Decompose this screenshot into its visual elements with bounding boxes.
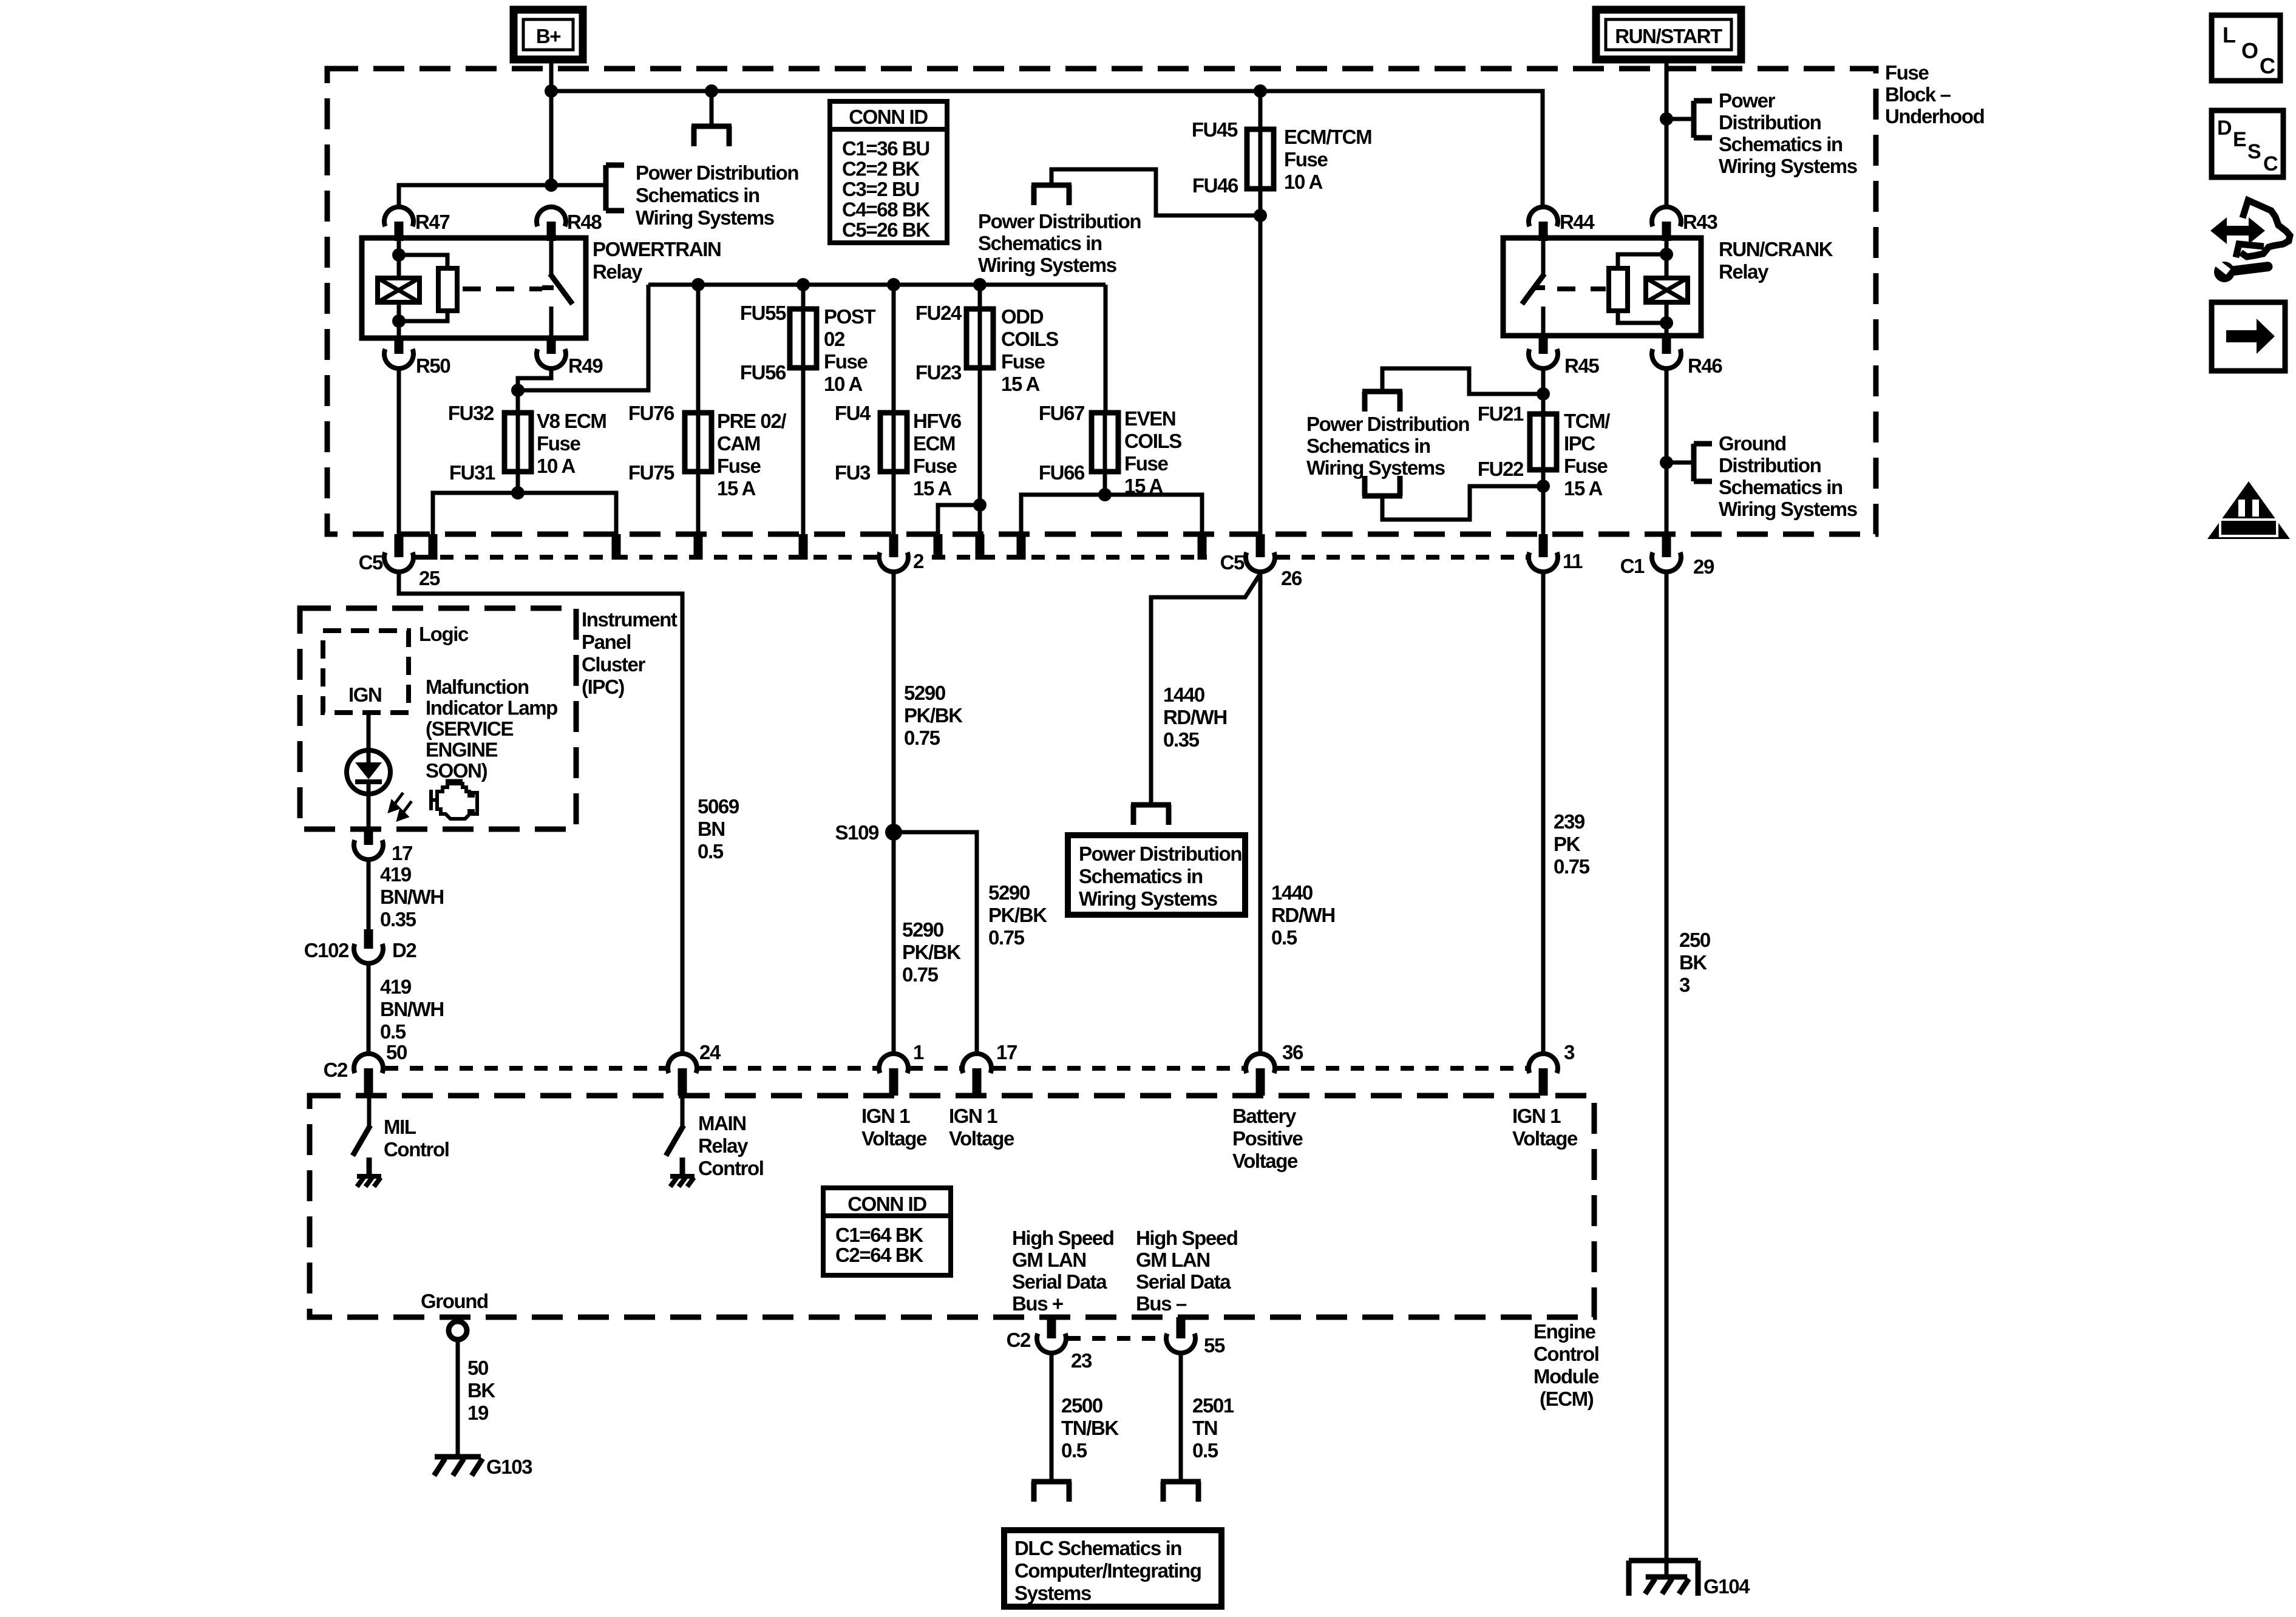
wire pin11 to ECM pin3 (239) [1541, 571, 1546, 1055]
svg-text:419: 419 [380, 975, 412, 998]
svg-text:Fuse: Fuse [1124, 452, 1168, 475]
svg-text:High Speed: High Speed [1136, 1227, 1238, 1249]
node V8 out junction [511, 486, 525, 500]
svg-text:2500: 2500 [1061, 1394, 1102, 1417]
svg-text:26: 26 [1281, 567, 1302, 589]
svg-text:0.75: 0.75 [1554, 855, 1590, 878]
wire EVEN fuse feed [1104, 285, 1108, 414]
node junction R47 branch [545, 178, 558, 192]
svg-text:FU56: FU56 [740, 361, 786, 384]
node bus POST02 drop [796, 278, 810, 291]
wire 419 lower [367, 963, 371, 1055]
ground G103 [435, 1454, 481, 1460]
wire EVEN out split [1021, 495, 1202, 558]
wire R45 down to FU21 [1541, 368, 1546, 415]
svg-text:Serial Data: Serial Data [1012, 1270, 1107, 1293]
svg-text:R47: R47 [415, 211, 449, 233]
wire ECM/TCM fuse feed [1258, 91, 1263, 131]
svg-text:Computer/Integrating: Computer/Integrating [1014, 1559, 1201, 1582]
connector C102 pin D2 [364, 929, 373, 949]
wire ECM/TCM branch to fork [1051, 169, 1260, 215]
svg-text:FU21: FU21 [1478, 402, 1524, 425]
svg-text:C2: C2 [1007, 1329, 1031, 1351]
fuse FU23/FU24 ODD COILS [966, 309, 993, 368]
wire pin29 to G104 (250) [1665, 571, 1669, 1562]
node S junction under R49 [511, 384, 525, 397]
node junction bus ECM/TCM fuse drop [1254, 84, 1267, 98]
svg-text:L: L [2223, 22, 2235, 47]
fuse block - underhood dashed box [327, 69, 1876, 534]
connector C5 pin 26 [1256, 534, 1265, 557]
svg-text:CONN ID: CONN ID [849, 106, 928, 128]
svg-text:Fuse: Fuse [1564, 455, 1608, 477]
svg-text:Distribution: Distribution [1719, 111, 1821, 134]
svg-text:TN/BK: TN/BK [1061, 1417, 1119, 1439]
svg-text:C102: C102 [304, 939, 349, 961]
wire FU22 branch Z to fork [1382, 486, 1543, 520]
svg-text:S109: S109 [835, 821, 880, 844]
svg-text:R50: R50 [416, 354, 450, 377]
node junction R43 branch [1660, 112, 1673, 126]
svg-text:Schematics in: Schematics in [1719, 133, 1843, 155]
ground G104 [1629, 1558, 1698, 1564]
bus wire B+ to R44 corner [551, 91, 1543, 207]
fork continuation (1440 branch) [1149, 802, 1153, 805]
connector pin 24 [668, 1054, 697, 1073]
svg-text:Wiring Systems: Wiring Systems [1079, 887, 1217, 910]
connector pin 55 [1177, 1317, 1186, 1338]
pass-through pins fuse block bottom [429, 534, 438, 560]
relay resistor (run/crank) [1618, 254, 1666, 268]
engine icon [431, 781, 477, 819]
svg-text:Relay: Relay [593, 260, 643, 283]
relay actuator dashed link (powertrain) [463, 286, 542, 291]
connector pin 36 [1246, 1054, 1275, 1073]
svg-text:BK: BK [467, 1379, 495, 1402]
svg-text:BN/WH: BN/WH [380, 886, 444, 908]
svg-text:0.5: 0.5 [1061, 1439, 1087, 1462]
switch MAIN relay control [681, 1096, 685, 1127]
fuse FU3/FU4 HFV6 ECM [880, 413, 907, 472]
svg-text:ECM: ECM [913, 432, 955, 455]
svg-text:Wiring Systems: Wiring Systems [636, 206, 774, 229]
svg-text:C2=64 BK: C2=64 BK [835, 1244, 923, 1266]
boxed ref Power Distribution Schematics in Wiring Systems [1068, 835, 1245, 915]
svg-text:E: E [2233, 128, 2246, 151]
svg-text:Schematics in: Schematics in [1306, 435, 1430, 457]
svg-text:C: C [2263, 152, 2278, 175]
node junction bus fork drop [705, 84, 718, 98]
connector pin 1 [879, 1054, 908, 1073]
svg-text:0.5: 0.5 [698, 840, 724, 863]
svg-text:Panel: Panel [582, 631, 631, 653]
icon LOC box [2212, 15, 2280, 81]
svg-text:Schematics in: Schematics in [978, 232, 1102, 254]
fork continuation (ECM/TCM branch) [1050, 183, 1054, 185]
svg-text:Power Distribution: Power Distribution [1079, 842, 1241, 865]
svg-text:Wiring Systems: Wiring Systems [1719, 155, 1857, 177]
svg-text:50: 50 [467, 1357, 488, 1379]
svg-text:1440: 1440 [1163, 683, 1204, 706]
svg-text:5069: 5069 [698, 795, 739, 818]
connector C5 pin 25 [395, 534, 404, 557]
svg-text:1: 1 [913, 1041, 924, 1063]
svg-text:15 A: 15 A [913, 477, 951, 500]
svg-text:0.5: 0.5 [1271, 926, 1297, 949]
svg-text:Systems: Systems [1014, 1582, 1091, 1604]
svg-text:36: 36 [1282, 1041, 1303, 1063]
node coil loop top (run/crank) [1660, 248, 1673, 261]
svg-text:Fuse: Fuse [1885, 61, 1929, 84]
node junction B+/bus [545, 84, 558, 98]
svg-text:POST: POST [824, 305, 875, 328]
svg-text:Voltage: Voltage [1512, 1127, 1578, 1150]
node ECM/TCM out junction [1254, 209, 1267, 222]
svg-text:Underhood: Underhood [1885, 105, 1984, 127]
connector R49 [547, 336, 556, 354]
svg-text:FU55: FU55 [740, 302, 786, 324]
svg-text:EVEN: EVEN [1124, 407, 1175, 430]
svg-text:FU4: FU4 [835, 402, 871, 424]
svg-text:R48: R48 [567, 211, 602, 233]
node R45 junction [1537, 387, 1550, 401]
icon OBD II triangle [2207, 481, 2290, 539]
svg-text:RUN/CRANK: RUN/CRANK [1719, 238, 1833, 260]
svg-text:10 A: 10 A [537, 455, 575, 477]
wire HFV6 fuse out to pin 2 [892, 472, 896, 537]
icon DESC box [2212, 110, 2283, 177]
svg-text:TN: TN [1192, 1417, 1217, 1439]
power node RUN/START [1596, 10, 1741, 59]
svg-text:Fuse: Fuse [717, 455, 761, 477]
switch MIL control [367, 1096, 372, 1127]
svg-text:0.75: 0.75 [988, 926, 1025, 949]
fuse FU55/FU56 POST 02 [790, 309, 817, 368]
fuse FU66/FU67 EVEN COILS [1092, 413, 1118, 472]
svg-text:Voltage: Voltage [949, 1127, 1014, 1150]
relay POWERTRAIN box [362, 238, 586, 338]
svg-text:15 A: 15 A [1564, 477, 1602, 500]
connector R48 [537, 207, 566, 226]
svg-text:C2=2 BK: C2=2 BK [842, 158, 920, 180]
wire ODD fuse feed [978, 285, 982, 310]
boxed ref DLC Schematics [1004, 1530, 1221, 1607]
svg-text:419: 419 [380, 863, 412, 886]
svg-text:C1: C1 [1620, 555, 1645, 577]
connector C2 pin 50 [354, 1054, 383, 1073]
svg-text:SOON): SOON) [426, 759, 487, 782]
svg-text:IPC: IPC [1564, 432, 1595, 455]
wire LED to pin 17 [367, 794, 371, 830]
connector R45 [1539, 336, 1548, 354]
svg-text:17: 17 [996, 1041, 1017, 1063]
svg-text:FU46: FU46 [1192, 174, 1238, 197]
svg-text:24: 24 [699, 1041, 721, 1063]
relay coil K1 (powertrain) [397, 238, 401, 276]
svg-text:Cluster: Cluster [582, 653, 645, 676]
svg-text:C5: C5 [1220, 551, 1245, 574]
svg-text:15 A: 15 A [717, 477, 755, 500]
svg-text:29: 29 [1693, 555, 1714, 578]
svg-text:FU66: FU66 [1039, 461, 1085, 484]
wire V8 fuse feed [516, 390, 520, 414]
connector R47 [384, 207, 413, 226]
svg-text:C5: C5 [359, 551, 383, 574]
reference bracket Ground Distribution [1666, 461, 1694, 465]
svg-text:15 A: 15 A [1001, 373, 1039, 395]
engine control module dashed box [310, 1096, 1594, 1317]
relay RUN/CRANK box [1503, 238, 1701, 336]
svg-text:23: 23 [1071, 1349, 1092, 1372]
svg-text:55: 55 [1204, 1334, 1225, 1357]
svg-text:Relay: Relay [1719, 260, 1769, 283]
bus wire relay output [648, 283, 1106, 287]
svg-text:FU75: FU75 [628, 461, 674, 484]
svg-text:2501: 2501 [1192, 1394, 1234, 1417]
svg-text:0.75: 0.75 [902, 963, 939, 986]
ground MIL [357, 1174, 381, 1179]
svg-text:BK: BK [1679, 951, 1707, 974]
node FU22 out junction [1537, 480, 1550, 493]
svg-text:R46: R46 [1688, 354, 1722, 377]
LED arrows [390, 793, 412, 819]
svg-text:Malfunction: Malfunction [426, 676, 529, 698]
table CONN ID (fuse block) [830, 101, 947, 243]
svg-text:BN: BN [698, 818, 725, 840]
node bus ODD drop [973, 278, 987, 291]
wire B+ down to bus [549, 59, 554, 188]
wire 2500 TN/BK [1050, 1353, 1054, 1479]
relay resistor (powertrain) [399, 255, 447, 268]
svg-text:Ground: Ground [421, 1290, 488, 1312]
svg-text:(SERVICE: (SERVICE [426, 717, 513, 740]
connector pin 2 [889, 534, 898, 557]
wire RUN/START down to R43 [1665, 59, 1669, 207]
svg-text:R49: R49 [568, 354, 603, 377]
svg-text:Distribution: Distribution [1719, 454, 1821, 476]
splice S109 [885, 824, 902, 841]
wire FU22 out [1541, 470, 1546, 537]
svg-text:Ground: Ground [1719, 432, 1786, 455]
fork continuation (bus -) [1179, 1479, 1183, 1482]
fork continuation symbol off bus [710, 91, 714, 126]
connector dotted line DLC row [1067, 1336, 1165, 1341]
wire pin26 branch to ref (1440 0.35) [1151, 574, 1260, 802]
svg-text:FU22: FU22 [1478, 458, 1524, 480]
wire EVEN fuse out [1103, 472, 1107, 497]
svg-text:FU23: FU23 [915, 361, 962, 384]
connector pin 17 (IPC) [364, 829, 373, 845]
svg-text:C2: C2 [324, 1059, 348, 1081]
fuse FU31/FU32 V8 ECM [504, 413, 531, 472]
svg-text:FU32: FU32 [448, 402, 494, 424]
svg-text:MIL: MIL [384, 1116, 416, 1138]
svg-text:FU76: FU76 [628, 402, 674, 424]
wire junction to fuse bus riser [518, 285, 648, 390]
svg-text:FU45: FU45 [1192, 118, 1238, 141]
svg-text:GM LAN: GM LAN [1136, 1249, 1210, 1271]
node coil loop bottom (run/crank) [1660, 316, 1673, 330]
svg-text:11: 11 [1563, 550, 1583, 572]
wire V8 fuse out [516, 472, 520, 495]
svg-text:Positive: Positive [1232, 1127, 1303, 1150]
power node B+ [514, 10, 583, 59]
wire ground to G103 [456, 1340, 460, 1456]
svg-text:IGN 1: IGN 1 [861, 1105, 910, 1127]
svg-text:IGN: IGN [348, 683, 381, 706]
svg-text:C4=68 BK: C4=68 BK [842, 198, 930, 221]
connector dotted line C5 row [415, 555, 877, 560]
svg-text:C5=26 BK: C5=26 BK [842, 219, 930, 241]
svg-text:02: 02 [824, 328, 845, 350]
svg-text:Schematics in: Schematics in [1719, 476, 1843, 498]
svg-text:Fuse: Fuse [824, 350, 868, 373]
svg-text:Voltage: Voltage [861, 1127, 927, 1150]
wire ODD fuse out [978, 368, 982, 507]
logic dashed box [323, 631, 409, 713]
svg-text:5290: 5290 [902, 918, 943, 941]
svg-text:Relay: Relay [698, 1134, 749, 1157]
svg-text:IGN 1: IGN 1 [1512, 1105, 1561, 1127]
wire to R47 [399, 185, 551, 207]
wire V8 out split [433, 493, 616, 558]
svg-text:FU31: FU31 [449, 461, 495, 484]
svg-text:19: 19 [467, 1402, 489, 1424]
svg-text:0.5: 0.5 [380, 1020, 406, 1043]
svg-text:V8 ECM: V8 ECM [537, 410, 606, 432]
svg-text:O: O [2241, 38, 2258, 63]
fuse FU45/FU46 ECM/TCM [1247, 129, 1274, 189]
svg-text:RUN/START: RUN/START [1615, 25, 1722, 47]
node coil loop bottom [392, 314, 406, 328]
svg-text:PRE 02/: PRE 02/ [717, 410, 786, 432]
svg-text:0.35: 0.35 [380, 908, 416, 931]
svg-text:R43: R43 [1683, 211, 1717, 233]
svg-text:RD/WH: RD/WH [1163, 706, 1227, 728]
wire POST02 fuse out [801, 368, 806, 558]
reference bracket Power Distribution (top right) [1666, 117, 1694, 121]
svg-text:5290: 5290 [904, 682, 945, 704]
wire R50 down to C5 pin 25 [397, 368, 401, 537]
wire R45 branch Z to fork [1382, 368, 1543, 394]
svg-text:COILS: COILS [1001, 328, 1058, 350]
wire pin2 to ECM pin1 (5290) [892, 571, 896, 1055]
svg-text:FU24: FU24 [915, 302, 962, 324]
svg-text:CONN ID: CONN ID [847, 1193, 926, 1215]
svg-text:Fuse: Fuse [537, 432, 580, 455]
indicator lamp LED [347, 750, 390, 794]
svg-text:Power Distribution: Power Distribution [1306, 413, 1469, 435]
fuse FU75/FU76 PRE 02/CAM [685, 413, 712, 472]
svg-text:ODD: ODD [1001, 305, 1044, 328]
svg-text:3: 3 [1679, 974, 1690, 996]
table CONN ID (ECM) [823, 1188, 951, 1275]
svg-text:C3=2 BU: C3=2 BU [842, 178, 919, 200]
svg-text:ECM/TCM: ECM/TCM [1284, 126, 1371, 148]
svg-text:CAM: CAM [717, 432, 760, 455]
connector R43 [1652, 207, 1681, 226]
connector pin 3 [1529, 1054, 1558, 1073]
connector pin 11 [1539, 534, 1548, 557]
wire POST02 fuse feed [801, 285, 806, 310]
svg-text:250: 250 [1679, 929, 1710, 951]
svg-text:Control: Control [698, 1157, 764, 1179]
connector R50 [395, 336, 404, 354]
relay switch (run/crank) [1541, 238, 1546, 275]
svg-text:TCM/: TCM/ [1564, 410, 1610, 432]
svg-text:C1=64 BK: C1=64 BK [835, 1224, 923, 1246]
svg-text:239: 239 [1554, 810, 1585, 833]
svg-text:PK/BK: PK/BK [902, 941, 961, 963]
fork continuation (bus +) [1050, 1479, 1054, 1482]
svg-text:Instrument: Instrument [582, 608, 678, 631]
svg-text:Wiring Systems: Wiring Systems [1719, 498, 1857, 520]
svg-text:Wiring Systems: Wiring Systems [978, 254, 1116, 276]
svg-text:17: 17 [392, 842, 412, 864]
svg-text:D2: D2 [392, 939, 416, 961]
svg-text:C1=36 BU: C1=36 BU [842, 137, 929, 160]
wire PRE02 fuse feed [696, 285, 701, 414]
wire S109 branch to ECM pin17 [894, 832, 977, 1055]
svg-text:Bus +: Bus + [1012, 1292, 1063, 1315]
relay actuator dashed link (run/crank) [1557, 286, 1606, 291]
node bus HFV6 drop [887, 278, 900, 291]
connector C2 pin 23 [1047, 1317, 1056, 1338]
svg-text:Fuse: Fuse [1284, 148, 1328, 171]
ground terminal circle [449, 1321, 467, 1340]
connector R46 [1662, 336, 1671, 354]
svg-text:C: C [2260, 53, 2275, 78]
svg-text:FU3: FU3 [835, 461, 871, 484]
svg-text:Wiring Systems: Wiring Systems [1306, 456, 1445, 479]
svg-text:Control: Control [1533, 1343, 1599, 1365]
svg-text:Module: Module [1533, 1365, 1599, 1388]
wire 419 upper [367, 859, 371, 932]
wire pin25 to ECM pin24 (5069) [399, 571, 682, 1055]
svg-text:(IPC): (IPC) [582, 676, 624, 698]
svg-text:0.35: 0.35 [1163, 728, 1200, 751]
svg-text:RD/WH: RD/WH [1271, 904, 1335, 926]
svg-text:10 A: 10 A [1284, 171, 1322, 193]
svg-text:G103: G103 [486, 1456, 532, 1478]
svg-text:COILS: COILS [1124, 430, 1181, 452]
svg-text:High Speed: High Speed [1012, 1227, 1114, 1249]
connector dotted line ECM row [385, 1066, 667, 1071]
svg-text:G104: G104 [1703, 1575, 1750, 1598]
connector R44 [1529, 207, 1558, 226]
wire ECM/TCM fuse out [1258, 189, 1263, 537]
icon arrow box [2212, 302, 2285, 371]
svg-text:Voltage: Voltage [1232, 1150, 1298, 1172]
svg-text:OBD II: OBD II [2227, 519, 2270, 537]
svg-text:D: D [2217, 117, 2232, 140]
svg-text:PK/BK: PK/BK [988, 904, 1047, 926]
svg-text:S: S [2247, 140, 2261, 163]
svg-text:GM LAN: GM LAN [1012, 1249, 1086, 1271]
relay coil K2 (run/crank) [1665, 238, 1669, 276]
svg-text:Serial Data: Serial Data [1136, 1270, 1231, 1293]
svg-text:Battery: Battery [1232, 1105, 1297, 1127]
icon wrench arrow [2210, 217, 2265, 244]
svg-text:IGN 1: IGN 1 [949, 1105, 997, 1127]
wire 2501 TN [1179, 1353, 1183, 1479]
svg-text:1440: 1440 [1271, 881, 1313, 904]
node EVEN out junction [1098, 488, 1112, 501]
relay switch (powertrain) [549, 238, 554, 275]
wire pin26 to ECM pin36 (1440) [1258, 571, 1263, 1055]
instrument panel cluster dashed box [300, 608, 576, 829]
svg-text:R44: R44 [1560, 211, 1595, 233]
